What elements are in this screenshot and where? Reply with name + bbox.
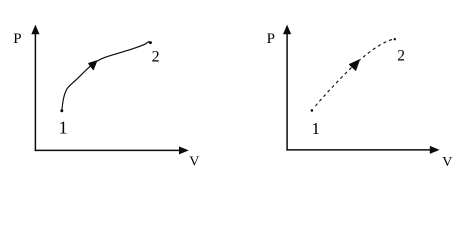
svg-text:V: V xyxy=(189,154,199,169)
svg-text:1: 1 xyxy=(59,117,68,137)
svg-text:2: 2 xyxy=(152,49,160,66)
svg-text:V: V xyxy=(442,155,452,170)
svg-text:2: 2 xyxy=(397,48,405,65)
svg-text:P: P xyxy=(267,31,275,47)
svg-text:1: 1 xyxy=(312,119,321,138)
svg-text:P: P xyxy=(13,31,21,47)
